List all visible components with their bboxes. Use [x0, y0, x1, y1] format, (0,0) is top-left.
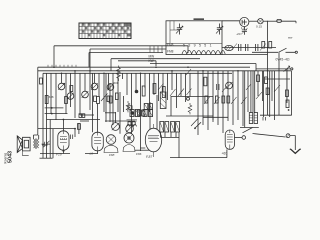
resistor R22 — [94, 96, 97, 102]
arrow marks mid — [158, 84, 176, 97]
tube V3 (capsule) — [92, 132, 103, 151]
capacitor C14 — [263, 117, 265, 121]
resistor R18 — [78, 124, 81, 130]
arrows top of section3 — [178, 69, 192, 96]
label 0V45 — [276, 58, 290, 62]
svg-text:608: 608 — [114, 81, 119, 85]
label 608 — [114, 81, 119, 85]
comb of vertical wires section 3 — [198, 71, 253, 135]
coil pair Dr1 — [249, 113, 257, 124]
resistor R25 — [115, 93, 118, 100]
wire V5 bottom — [235, 137, 243, 139]
X capacitor blocks x160 y121 — [160, 122, 180, 133]
tube lead wires — [93, 73, 158, 133]
mains arrow — [290, 149, 301, 153]
vertical text Koenig 5043 — [3, 151, 13, 164]
wire y127.5 left of switch — [240, 127, 259, 129]
label on top wire — [194, 18, 205, 20]
label L2 — [241, 26, 245, 30]
double squares row y109 — [130, 110, 153, 117]
squares pair x144 y100 — [144, 104, 152, 110]
junction blob — [135, 90, 139, 94]
resistor R17 — [286, 90, 289, 97]
wire to mains terminal — [281, 21, 296, 23]
resistor R27 — [204, 77, 207, 86]
wire bus y45.8 — [54, 45, 188, 47]
wire stubs band area — [150, 46, 162, 53]
wire top bus to magic eye — [222, 20, 240, 22]
wire bus y63.5 — [150, 64, 256, 72]
wire C2 base to V1 — [135, 149, 150, 151]
band labels MW KW — [149, 55, 155, 64]
wire y107.9 — [45, 107, 64, 109]
potentiometer P6 — [226, 82, 233, 89]
potentiometer P7 — [112, 123, 120, 131]
switch lever mid — [194, 122, 201, 129]
wire — [263, 20, 277, 22]
output transformer Tr2 — [34, 139, 39, 149]
resistor R14 — [257, 75, 260, 82]
arrow at C11 — [43, 141, 50, 148]
label ww — [288, 36, 293, 40]
potentiometer P8 — [126, 125, 134, 133]
resistor R23 — [107, 96, 110, 102]
resistor R1 — [45, 96, 48, 104]
svg-text:+60: +60 — [222, 152, 228, 156]
resistor R9 — [227, 96, 230, 103]
small coil pair — [79, 114, 85, 118]
wire bus y52.5 — [89, 53, 163, 68]
output tube V4 (capsule) — [58, 131, 69, 150]
svg-text:MW: MW — [149, 55, 155, 59]
wire y112.8 — [105, 112, 116, 114]
svg-text:5043: 5043 — [7, 151, 13, 163]
arrow at x198 — [191, 118, 199, 126]
trimmer capacitor C2 — [216, 24, 223, 35]
wire y115.2 right — [260, 114, 292, 116]
resistor R8 — [222, 96, 225, 103]
svg-text:608: 608 — [49, 95, 54, 99]
potentiometer P2 — [67, 93, 74, 100]
label -20 — [236, 32, 241, 36]
main vertical from top bus — [267, 21, 269, 64]
capacitor C13 — [217, 84, 220, 90]
wire left edge x43 — [42, 73, 44, 158]
fuse F1 — [277, 19, 282, 22]
terminal circle — [295, 51, 297, 53]
rectifier tube V5 (capsule) — [225, 130, 234, 149]
coil winding digits — [183, 44, 213, 48]
choke coils bottom center x128 — [127, 120, 138, 127]
comb of vertical wires section 1 — [51, 71, 113, 125]
small tube V2 circle with base — [104, 135, 118, 153]
label 608 — [0, 0, 1, 1]
wire y113.6 — [45, 113, 68, 115]
switch wire diagonal to mains — [253, 134, 286, 138]
label F86 — [136, 152, 142, 156]
arrows right section — [256, 85, 280, 99]
bottom rail left — [40, 157, 53, 159]
coil winding L2 scallops — [182, 50, 225, 54]
wire y68.9 with arrow — [256, 68, 291, 70]
resistor R26 — [40, 78, 43, 84]
wire y137.4 — [161, 132, 180, 137]
capacitor small x128 y106 — [128, 106, 132, 109]
label at R1 — [49, 95, 54, 99]
right section verticals — [245, 52, 292, 127]
band switch S1 — [79, 23, 131, 39]
resistor R5 zigzag — [117, 66, 121, 82]
potentiometer P1 — [58, 83, 65, 90]
small tube V2b circle with base — [123, 133, 135, 152]
wire to drop — [290, 136, 295, 151]
wire bottom of tubes — [40, 150, 98, 153]
wire bus y73.3 — [43, 72, 232, 74]
wire left edge x46.5 — [46, 73, 48, 158]
resistor zigzag x128 — [126, 101, 130, 112]
wires above tubes — [50, 120, 79, 159]
wire y53.3 under resistor row — [222, 54, 268, 56]
loudspeaker LS — [17, 136, 30, 156]
HF choke Dr2 oval — [225, 45, 233, 50]
capacitor C9 — [246, 44, 248, 51]
terminal — [291, 68, 293, 70]
tube V1 (big oval) — [145, 124, 161, 157]
label F87 — [146, 155, 152, 159]
wire y128.6 — [38, 128, 75, 130]
resistor R6 — [205, 96, 208, 103]
X squares x137 y110 — [138, 110, 145, 116]
junction circle in loop — [187, 97, 190, 100]
trimmer under magic eye — [241, 27, 247, 35]
potentiometer P4 — [91, 83, 98, 90]
potentiometer P5 — [107, 84, 114, 91]
resistor R3 — [97, 97, 100, 104]
wire y115 — [80, 114, 94, 116]
magic eye tube V7 — [240, 17, 249, 26]
wire y47.6 — [222, 47, 276, 49]
wire vertical x188 stub — [187, 46, 189, 53]
terminal circle E — [242, 136, 246, 140]
junction dots left — [51, 107, 76, 130]
svg-text:F86: F86 — [136, 152, 142, 156]
svg-text:0V45~4Ω: 0V45~4Ω — [276, 58, 290, 62]
comb of vertical wires section 2 — [118, 71, 190, 134]
wire y117 mid — [203, 116, 228, 118]
capacitor C11 — [42, 142, 51, 147]
label FM8 — [167, 43, 174, 54]
capacitor C10 — [256, 44, 258, 51]
resistor R4 — [109, 96, 112, 103]
arrows mid right — [204, 84, 251, 104]
wire tube V1 top — [141, 120, 146, 148]
label F10 — [56, 153, 62, 157]
switch lever SW2 — [243, 128, 253, 133]
label under V3 — [90, 152, 94, 156]
resistor R7 — [215, 96, 218, 103]
resistor zigzag vertical x190 — [188, 103, 192, 114]
junction blob 2 — [131, 111, 135, 115]
power switch wire y52.3 — [252, 51, 296, 53]
wire left edge x37.8 — [37, 67, 39, 135]
dial lamp La — [258, 19, 263, 24]
svg-text:-20: -20 — [236, 32, 241, 36]
wire vertical x54 — [53, 46, 55, 67]
feedback loop wire box — [166, 97, 213, 123]
label F88 — [109, 153, 115, 157]
resistor R15 — [265, 77, 268, 84]
arrow at x104 — [101, 94, 108, 102]
contact ticks on bus y67.2 — [48, 65, 76, 67]
resistor R24 — [70, 86, 73, 92]
svg-text:FM8: FM8 — [167, 43, 174, 47]
wire links bottom left — [34, 135, 39, 139]
trimmer capacitor C1 — [176, 24, 183, 35]
switch contact circle — [286, 134, 290, 138]
IF can vertical — [160, 92, 166, 109]
svg-text:F88: F88 — [109, 153, 115, 157]
arrows resistor row — [231, 44, 266, 51]
bottom long wire y157 — [141, 133, 227, 158]
resistor R12 — [262, 42, 265, 49]
arrow on y68.9 — [284, 66, 290, 72]
junction dots rail — [42, 144, 47, 146]
resistor R16 — [266, 88, 269, 95]
switch lever — [279, 48, 287, 52]
label +60 — [222, 152, 228, 156]
potentiometer P3 — [82, 91, 89, 98]
wire — [249, 20, 258, 22]
wire bus y70.8 long — [38, 70, 291, 72]
wire bus y67.2 main — [38, 66, 250, 68]
svg-text:Koenig: Koenig — [3, 153, 7, 164]
junction dots on buses — [53, 47, 268, 74]
label 0.15 — [256, 25, 262, 29]
wire y79 right — [265, 78, 291, 80]
resistor R2 — [65, 97, 68, 104]
wire bus y49 — [90, 48, 166, 50]
svg-text:FM8: FM8 — [167, 50, 174, 54]
capacitor C12 — [71, 135, 73, 140]
capacitor C8 — [239, 44, 241, 51]
svg-text:F.87: F.87 — [146, 155, 152, 159]
resistor R13 — [269, 42, 272, 49]
svg-text:0.15: 0.15 — [256, 25, 262, 29]
wire y121 — [80, 120, 89, 122]
wire y119.5 — [47, 119, 101, 121]
cross at V4 bottom — [62, 150, 65, 153]
capacitor C6 — [162, 87, 165, 98]
resistor R21 — [286, 100, 289, 108]
capacitor C4 — [142, 86, 145, 96]
wire bus y58.7 — [111, 59, 200, 71]
capacitor C5 — [153, 84, 156, 94]
IF transformer box T1 — [166, 21, 222, 55]
wire bus y60.8 — [118, 61, 156, 66]
wire vertical x90 — [89, 49, 91, 71]
junction dot — [288, 109, 290, 111]
wire y121 mid — [105, 120, 135, 122]
